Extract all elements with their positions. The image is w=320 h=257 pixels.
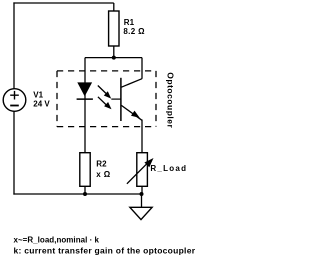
wire R_Load bottom lead bbox=[141, 186, 143, 194]
voltage source V1 bbox=[3, 89, 26, 112]
wire R1 bottom lead bbox=[113, 46, 115, 58]
svg-text:R1: R1 bbox=[124, 18, 135, 27]
svg-text:24 V: 24 V bbox=[33, 100, 50, 109]
wire top bbox=[13, 2, 113, 4]
phototransistor base lead bbox=[111, 98, 121, 100]
wire bottom bbox=[13, 193, 141, 195]
ground bbox=[130, 207, 152, 219]
wire emitter to R_Load bbox=[141, 120, 143, 153]
wire left lower bbox=[13, 111, 15, 194]
wire collector lead bbox=[141, 58, 143, 79]
optocoupler dashed box bbox=[57, 71, 156, 127]
svg-text:x~=R_load,nominal · k: x~=R_load,nominal · k bbox=[14, 236, 100, 245]
svg-text:R2: R2 bbox=[96, 160, 107, 169]
resistor R2 bbox=[80, 153, 90, 187]
R_Load arrow bbox=[127, 158, 154, 184]
light arrow 1 bbox=[98, 86, 111, 99]
svg-text:V1: V1 bbox=[33, 90, 43, 99]
wire left upper bbox=[13, 2, 15, 88]
LED D1 bbox=[77, 82, 93, 99]
wire R1 top lead bbox=[113, 3, 115, 11]
svg-text:Optocoupler: Optocoupler bbox=[165, 72, 175, 128]
wire R2 bottom lead bbox=[84, 186, 86, 194]
emitter arrowhead bbox=[131, 111, 140, 118]
wire LED branch bbox=[84, 58, 86, 153]
resistor R1 bbox=[109, 11, 119, 46]
wire ground lead bbox=[141, 194, 143, 207]
node junction below R1 bbox=[112, 56, 116, 60]
svg-text:k: current transfer gain of th: k: current transfer gain of the optocoup… bbox=[14, 246, 196, 256]
svg-text:8.2 Ω: 8.2 Ω bbox=[123, 27, 145, 36]
variable resistor R_Load bbox=[137, 153, 148, 187]
phototransistor Q1 bbox=[121, 78, 142, 121]
light arrow 2 bbox=[98, 97, 112, 110]
svg-text:x Ω: x Ω bbox=[96, 170, 110, 179]
wire LED-collector link bbox=[85, 57, 142, 59]
node junction R2 bottom bbox=[83, 192, 87, 196]
node junction R_Load bottom bbox=[140, 192, 144, 196]
